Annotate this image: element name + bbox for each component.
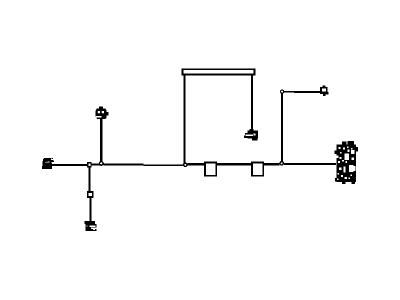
wire: corner node to connector C5 (thin then thick) xyxy=(284,91,294,92)
inline connector (open square) xyxy=(88,192,93,197)
wire: junction to box B1 xyxy=(188,163,205,165)
wire: square junction to circle junction xyxy=(91,163,101,165)
wire: inline square down to connector C3 xyxy=(89,198,91,222)
circle junction node (branch up) xyxy=(99,161,104,166)
connector C1 (left end) xyxy=(42,158,54,169)
main wire: C1 to square junction xyxy=(52,164,88,166)
connector C6 (big multi-pin block, right) xyxy=(335,141,359,184)
top bar (harness channel) xyxy=(182,69,254,74)
wire: right node to big connector C6 xyxy=(284,163,336,165)
wire from bar left end down to junction xyxy=(184,76,186,166)
wire: right node up to corner node xyxy=(281,93,283,161)
wire: B2 to right circle node xyxy=(264,163,280,165)
square junction node xyxy=(87,162,92,167)
wire: B1 to B2 xyxy=(217,163,252,165)
main wire: thin section to bar junction xyxy=(144,165,185,166)
white details inside C6 xyxy=(338,147,340,149)
corner circle node xyxy=(280,89,284,93)
inline box B2 xyxy=(252,162,263,175)
connector C3 (bottom) xyxy=(85,221,97,231)
inline box B1 xyxy=(205,162,216,175)
connector C5 (right top) xyxy=(320,85,329,96)
wire: square junction down to inline square xyxy=(89,167,91,191)
wire: circle node up to connector C4 xyxy=(100,119,102,162)
connector C2 xyxy=(244,129,258,141)
circle junction node (right branch) xyxy=(279,161,284,166)
circle junction node (bar drop) xyxy=(183,162,188,167)
wire from bar right end down to connector C2 xyxy=(251,76,253,132)
connector C4 (grommet, top of left branch) xyxy=(96,106,109,119)
main wire: circle node to thin section (thick part) xyxy=(104,164,144,166)
